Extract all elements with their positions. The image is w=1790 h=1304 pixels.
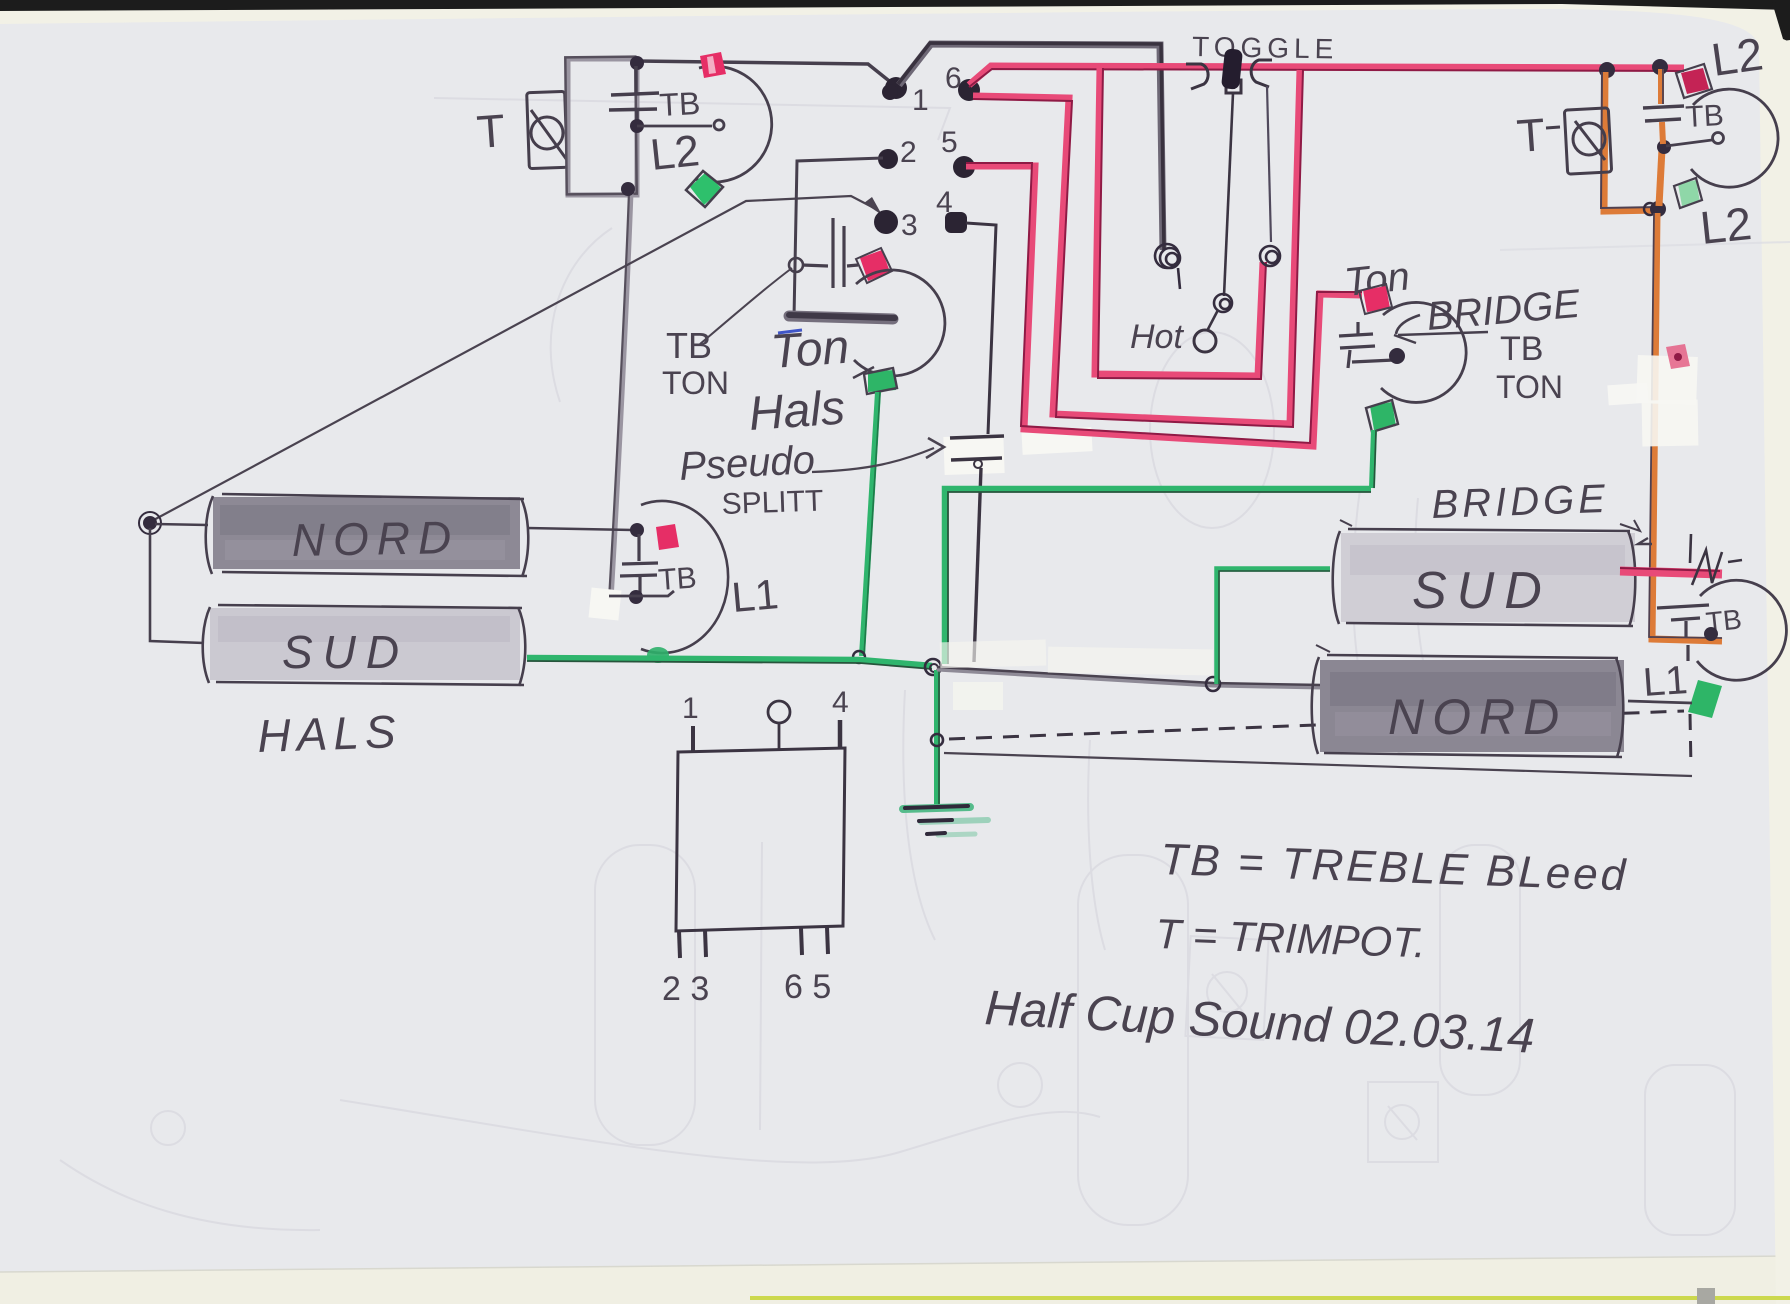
node: TB junction top right — [1652, 59, 1668, 75]
wiper of L2 neck volume — [637, 120, 724, 130]
capacitor TB (bridge tone) — [1339, 322, 1394, 368]
pot circle L2 (neck volume) — [695, 66, 772, 182]
svg-text:6 5: 6 5 — [784, 968, 831, 1006]
correction tape strips along bridge wire — [940, 640, 1047, 669]
svg-text:L1: L1 — [1642, 658, 1689, 705]
wire (orange): pot case down to bridge tone/volume L1 — [1649, 213, 1722, 641]
svg-text:T: T — [1515, 108, 1547, 162]
wire: switch pin 4 down to pseudo-split cap — [966, 223, 996, 434]
svg-text:T: T — [475, 104, 507, 158]
trimpot T (neck volume) — [527, 91, 568, 168]
pot circle (bridge tone) — [1381, 302, 1466, 402]
wire (red): pin 5 through outer U to bridge tone pot — [966, 163, 1362, 446]
wire (green): junction down to ground — [937, 670, 939, 806]
svg-text:TB: TB — [1685, 99, 1725, 134]
svg-text:SUD: SUD — [282, 626, 409, 678]
svg-text:1: 1 — [682, 692, 699, 725]
toggle right lug — [1260, 246, 1280, 266]
connector box — [676, 748, 845, 931]
wiper node of L2 neck volume — [630, 119, 644, 133]
svg-text:NORD: NORD — [291, 511, 459, 566]
node: main ground junction — [925, 659, 941, 675]
svg-text:TON: TON — [662, 365, 729, 401]
svg-text:2 3: 2 3 — [662, 970, 709, 1008]
toggle right contact line — [1267, 86, 1271, 242]
svg-text:3: 3 — [901, 209, 918, 242]
neck tone pot case (thick charcoal bracket) — [789, 315, 895, 319]
svg-text:1: 1 — [912, 84, 929, 117]
svg-text:HALS: HALS — [257, 705, 403, 762]
svg-text:4: 4 — [936, 186, 953, 219]
svg-text:TB: TB — [658, 85, 701, 123]
svg-text:TB: TB — [666, 325, 712, 366]
svg-text:Hot: Hot — [1130, 318, 1184, 356]
treble bleed capacitor TB (L1 mid) — [620, 534, 658, 594]
solder lug marker (red) on neck tone — [860, 250, 890, 281]
connector pin 4 — [838, 720, 843, 748]
svg-text:2: 2 — [900, 136, 917, 169]
svg-text:TB: TB — [1500, 330, 1543, 368]
pot body rectangle (L2 neck volume) — [565, 57, 637, 195]
svg-text:6: 6 — [945, 62, 962, 95]
wire: node down and to SUD HALS pickup — [150, 528, 204, 643]
pot circle (neck tone TON HALS) — [854, 270, 945, 376]
node: L1 top lug — [630, 523, 644, 537]
svg-text:Hals: Hals — [747, 381, 846, 441]
node: shield wire start — [931, 734, 943, 746]
pickup NORD (neck) — [206, 494, 529, 577]
wire (red): pin 6 lower run through middle U to top-right corner — [973, 70, 1303, 427]
svg-text:5: 5 — [941, 126, 958, 159]
connector pins 6 5 — [801, 928, 802, 955]
wire: NORD bridge right to green lug — [1628, 701, 1692, 703]
toggle hot lug — [1214, 294, 1232, 312]
wire: switch pin 1 to toggle left lug (thick) — [898, 43, 1164, 250]
switch pin 1 — [885, 77, 907, 99]
wiper of bridge volume — [1666, 133, 1724, 147]
capacitor (neck tone TON HALS) — [802, 218, 858, 288]
wire (orange): case lug up to wiper lug — [1659, 149, 1662, 206]
node: pickups common (far left) — [143, 516, 157, 530]
node: bridge wiring junction — [1206, 677, 1220, 691]
wire: hot lug to output circle — [1207, 310, 1218, 331]
wire (green): SUD HALS pickup to ground junction — [527, 658, 932, 669]
capacitor node on neck tone case — [789, 258, 803, 272]
solder lug marker (red) on bridge volume — [1681, 68, 1709, 94]
svg-text:NORD: NORD — [1388, 689, 1567, 745]
switch pin 5 — [953, 156, 975, 178]
switch pin 4 — [945, 212, 967, 233]
wire: NORD HALS right side to L1 node — [527, 528, 633, 530]
pencil scribble over red wire — [1690, 534, 1742, 585]
wire (orange): TB junction down through cap — [1661, 69, 1663, 144]
wiper node of L1 mid — [629, 590, 643, 604]
solder lug marker (red) on L2 top — [700, 52, 726, 78]
svg-text:L2: L2 — [1698, 197, 1754, 254]
svg-text:Ton: Ton — [769, 321, 851, 379]
solder lug marker (green) on bridge L1 — [1688, 680, 1722, 718]
solder lug marker (green) on bridge tone with wire down — [1370, 402, 1396, 430]
correction tape at L1 wiper — [589, 588, 622, 621]
solder lug marker (green) on neck tone — [868, 370, 896, 392]
wire: junction to bridge pickup NORD (under tape) — [937, 667, 1322, 687]
wire: node to NORD HALS pickup — [155, 524, 208, 525]
wire: SUD bridge right to volume (arrow) — [1638, 538, 1652, 544]
wire: pickups to switch pin 3 (long diagonal) — [150, 196, 874, 522]
pseudo-split capacitor — [950, 436, 1004, 468]
switch pin 2 — [878, 149, 898, 169]
node: red junction top right (to orange) — [1599, 62, 1615, 78]
wire: pot L2 top lug to switch pin 1 — [637, 61, 893, 84]
pickup NORD (bridge) — [1312, 645, 1624, 757]
wiper lug node (bridge L1) — [1704, 627, 1718, 641]
svg-text:4: 4 — [832, 686, 849, 719]
connector pin 0 — [768, 701, 790, 723]
wire: pseudo cap to green bus — [974, 468, 981, 662]
switch pin 3 — [874, 210, 898, 234]
output jack "Hot" circle — [1194, 330, 1216, 352]
green scribble at L1 bottom — [647, 647, 669, 663]
pot circle L1 (bridge) — [1697, 580, 1786, 680]
shield wire (dashed) around NORD bridge — [949, 711, 1691, 768]
node: top-right corner of pot rect — [630, 56, 644, 70]
svg-text:L2: L2 — [648, 126, 702, 180]
correction tape over orange wire — [1636, 355, 1698, 405]
pickup SUD (neck) — [203, 605, 526, 686]
solder lug marker (red) on L1 — [656, 524, 679, 550]
wire (green): junction up to SUD BRIDGE pickup — [1217, 569, 1330, 684]
solder lug marker (red) on bridge tone — [1363, 286, 1390, 312]
svg-text:BRIDGE: BRIDGE — [1431, 477, 1610, 527]
treble bleed capacitor TB (bridge volume) — [1643, 106, 1684, 121]
wire (red): U-loop from pin-6 line to toggle right lug — [1095, 68, 1266, 379]
node on green bus — [853, 651, 865, 663]
wiper lug node (bridge tone) — [1389, 348, 1405, 364]
switch pin 6 — [958, 79, 980, 101]
treble bleed capacitor TB (bridge L1) — [1657, 605, 1709, 661]
svg-text:T = TRIMPOT.: T = TRIMPOT. — [1155, 910, 1427, 966]
solder lug marker (green) on bridge volume — [1678, 180, 1700, 206]
treble bleed capacitor TB (neck volume L2) — [609, 66, 659, 123]
toggle middle contact line to Hot lug — [1224, 93, 1233, 296]
wire (green): bridge tone lug via bus to ground junction — [945, 489, 1371, 664]
svg-text:L2: L2 — [1708, 27, 1766, 86]
pot circle L1 (mid) — [641, 501, 728, 653]
correction tape — [943, 435, 1004, 475]
svg-text:SUD: SUD — [1412, 562, 1552, 620]
wire (red): switch pin 6 to top-right bridge volume — [969, 66, 1684, 87]
wire (green): neck tone lug down to green bus — [862, 392, 880, 656]
svg-text:TB: TB — [657, 561, 698, 597]
toggle switch contacts — [1186, 60, 1272, 93]
node: L2 bottom lug — [621, 182, 635, 196]
svg-text:TON: TON — [1496, 369, 1563, 405]
node: pot case lug (bridge volume) — [1650, 201, 1666, 217]
connector pin 1 — [691, 726, 695, 752]
wire (red): SUD bridge to L1 tone cap — [1620, 568, 1722, 574]
svg-text:SPLITT: SPLITT — [721, 484, 824, 521]
pickup SUD (bridge) — [1333, 520, 1640, 627]
shield wire (solid) — [944, 753, 1692, 776]
long vertical wire from L2 bottom lug down to L1 wiper — [609, 192, 631, 600]
toggle left lug — [1155, 244, 1180, 289]
solder lug marker (green) on L2 bottom — [690, 172, 722, 205]
wiper of L1 mid — [609, 591, 674, 596]
node: wiper lug (bridge volume) — [1657, 140, 1671, 154]
svg-text:Pseudo: Pseudo — [678, 438, 816, 489]
correction tape — [1021, 427, 1092, 455]
wiper arrow (bridge tone) — [1394, 315, 1488, 343]
pot circle L2 (bridge volume) — [1691, 89, 1778, 187]
trimpot T (bridge volume) — [1546, 108, 1612, 174]
ground symbol — [903, 806, 988, 835]
wire: switch pin 2 to neck tone pot case — [794, 158, 883, 318]
connector pins 2 3 — [679, 931, 680, 958]
svg-text:L1: L1 — [730, 570, 781, 621]
wire (orange): junction down to pot case — [1601, 72, 1656, 211]
